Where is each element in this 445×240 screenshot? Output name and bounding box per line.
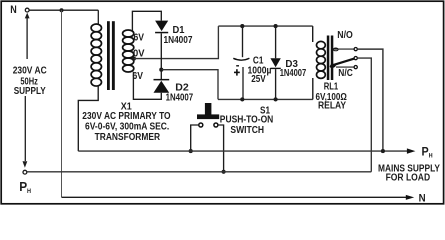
svg-text:6V: 6V [133,71,144,82]
junction dot on N wire [60,8,64,12]
wire top rail (0V) [218,25,312,27]
svg-text:1N4007: 1N4007 [164,35,193,46]
wire pole to PH-supply rail [357,58,371,172]
svg-text:N/C: N/C [338,68,353,79]
wire secondary bottom tap to D2 anode [133,72,161,100]
arrow PH load output [407,148,416,153]
svg-text:TRANSFORMER: TRANSFORMER [95,132,161,143]
diode D2 [154,70,170,93]
transformer X1 core [107,21,115,90]
wire PH-supply rail [27,171,372,173]
label X1 transformer description [82,102,170,143]
transformer X1 primary winding [91,10,101,86]
junction dot S1 right on PH-supply rail [222,170,226,174]
wire S1 left terminal to PH-load rail [191,125,199,151]
svg-text:FOR LOAD: FOR LOAD [386,173,431,184]
diode D1 [155,21,168,70]
wire bottom rail (+) [218,98,313,100]
svg-text:1N4007: 1N4007 [280,68,307,79]
push switch S1 [197,103,219,127]
svg-text:RL1: RL1 [324,82,339,93]
relay N/C stationary contact [336,66,357,69]
svg-text:H: H [27,188,31,195]
wire cathode junction to bottom rail [161,70,218,100]
wire secondary top tap to D1 anode [132,11,161,30]
svg-text:SUPPLY: SUPPLY [14,86,46,97]
node PH (mains phase input terminal) [19,96,31,195]
wire N terminal to transformer primary top [29,9,98,11]
junction dot S1 left on PH-load rail [189,149,193,153]
svg-text:1N4007: 1N4007 [166,93,194,104]
junction dot N/O on PH-load rail [381,149,385,153]
svg-text:N/O: N/O [337,30,353,41]
svg-text:D2: D2 [175,82,189,93]
svg-text:SWITCH: SWITCH [230,125,264,136]
label 230V AC 50Hz SUPPLY [13,66,47,97]
svg-text:230V AC PRIMARY TO: 230V AC PRIMARY TO [82,111,170,122]
label PH (load output) [422,144,433,159]
svg-text:N: N [10,4,17,16]
node N (mains neutral input terminal) [10,4,29,59]
capacitor C1 [233,24,249,101]
svg-text:25V: 25V [251,74,266,85]
svg-text:RELAY: RELAY [318,101,346,112]
svg-text:6V: 6V [134,33,145,44]
svg-text:H: H [429,153,433,160]
wire primary bottom to PH-load rail [78,86,98,151]
wire bottom N rail [62,196,407,198]
transformer X1 secondary winding [123,30,134,72]
relay RL1 coil [313,26,326,99]
svg-text:230V AC: 230V AC [13,66,47,77]
wire PH-load rail [78,150,408,152]
wire N/O contact to PH-load rail [357,49,383,151]
node 0V centre tap junction [132,57,136,61]
relay N/O stationary contact [333,48,357,51]
relay armature (pole) [329,57,357,69]
svg-text:PUSH-TO-ON: PUSH-TO-ON [220,114,273,125]
node D1/D2 cathode junction [159,68,163,72]
wire N vertical down to bottom N rail [61,10,63,197]
diode D3 [270,24,280,101]
svg-text:6V-0-6V, 300mA SEC.: 6V-0-6V, 300mA SEC. [85,122,169,133]
relay RL1 core [327,36,334,81]
arrow N output [406,195,414,200]
wire S1 right terminal to PH-supply rail [218,125,224,172]
wire centre tap to top rail [134,26,219,59]
svg-text:N: N [419,192,426,204]
